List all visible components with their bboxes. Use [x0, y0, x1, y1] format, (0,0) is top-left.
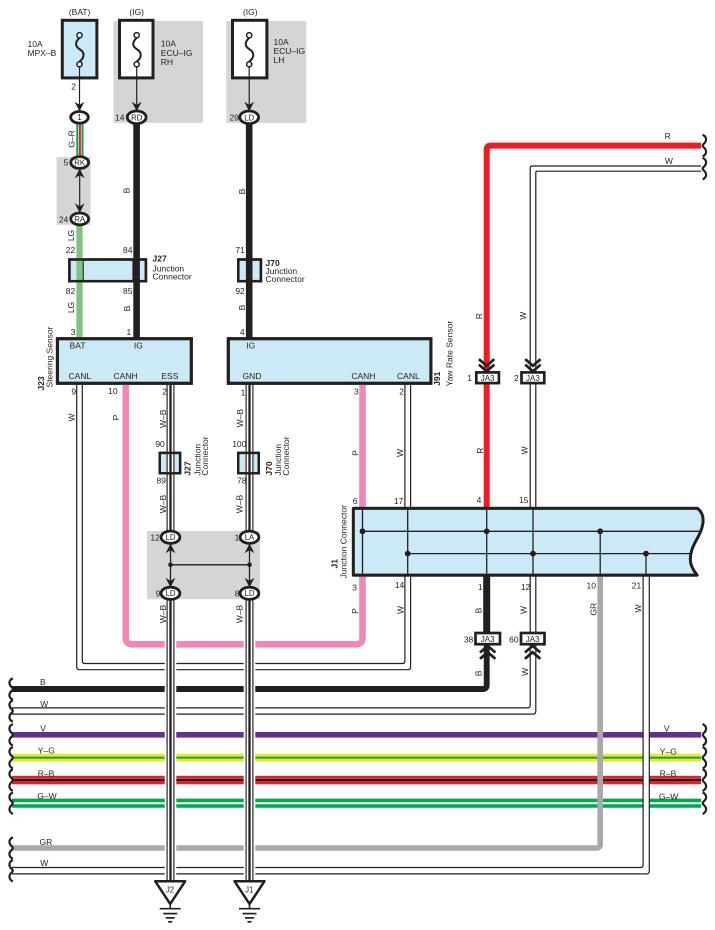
ground J2	[155, 881, 185, 922]
svg-text:W: W	[633, 604, 643, 612]
svg-text:R–B: R–B	[38, 768, 55, 778]
svg-text:2: 2	[71, 81, 76, 91]
svg-text:JA3: JA3	[481, 374, 495, 383]
svg-text:B: B	[122, 187, 132, 193]
svg-text:V: V	[40, 724, 46, 734]
svg-text:71: 71	[235, 245, 245, 255]
J1 internal CANH bus line	[363, 530, 701, 532]
svg-text:Connector: Connector	[153, 271, 192, 281]
svg-text:W: W	[395, 606, 405, 614]
svg-text:(BAT): (BAT)	[69, 7, 91, 17]
J1 internal cell line pin 21	[645, 554, 647, 574]
wire W from J23 CANL pin 9 to J1 pin 14 (double line)	[77, 383, 411, 669]
svg-text:B: B	[474, 670, 484, 676]
svg-text:LG: LG	[66, 230, 76, 241]
svg-text:LD: LD	[166, 533, 176, 542]
svg-text:W: W	[40, 858, 48, 868]
svg-text:LD: LD	[244, 113, 254, 122]
svg-text:12: 12	[521, 582, 531, 592]
fuse F3 10A ECU-IG LH box	[233, 20, 267, 78]
svg-text:1: 1	[241, 387, 246, 397]
svg-text:IG: IG	[246, 340, 255, 350]
arrow up into LD 12	[166, 544, 176, 554]
svg-text:Steering Sensor: Steering Sensor	[45, 326, 55, 387]
gray panel behind fuse ECU-IG LH	[226, 21, 306, 123]
svg-text:GND: GND	[243, 371, 262, 381]
svg-text:BAT: BAT	[70, 340, 86, 350]
svg-text:GR: GR	[589, 603, 599, 616]
wire R from JA3 to J1 pin 4	[484, 384, 490, 509]
svg-text:R: R	[474, 313, 484, 319]
svg-text:G–W: G–W	[659, 792, 678, 802]
J1 junction dot pin 10	[597, 528, 603, 534]
splice JA3 pin 2 with chevrons	[522, 359, 545, 383]
svg-text:Y–G: Y–G	[38, 745, 55, 755]
svg-text:LA: LA	[245, 533, 255, 542]
wire W from J1 pin 12 through JA3 60 to left edge (double line)	[12, 575, 536, 714]
svg-text:JA3: JA3	[526, 635, 540, 644]
break symbol right of R-B bus	[703, 769, 706, 791]
splice JA3 pin 60 with chevrons	[521, 633, 545, 659]
svg-text:10: 10	[587, 580, 597, 590]
svg-text:89: 89	[157, 476, 167, 486]
svg-text:1: 1	[126, 327, 131, 337]
svg-text:G–W: G–W	[37, 791, 56, 801]
wire B from RD through J27 to J23 IG pin 1	[133, 124, 140, 339]
yaw rate sensor J91 box	[228, 339, 431, 384]
svg-text:100: 100	[232, 439, 246, 449]
LD panel link line with junction dots	[168, 543, 252, 588]
wire P from J91 CANH pin 3 to J1 pin 6	[359, 383, 366, 508]
svg-text:W: W	[40, 699, 48, 709]
svg-text:3: 3	[354, 387, 359, 397]
wire G-R from connector 1 to RK (green with red stripe)	[77, 124, 82, 157]
svg-text:LD: LD	[245, 589, 255, 598]
svg-text:J2: J2	[166, 886, 174, 895]
svg-text:CANL: CANL	[69, 371, 92, 381]
wire: fuse F2 output lead to connector RD	[136, 66, 138, 111]
fuse F2 10A ECU-IG RH box	[120, 20, 154, 78]
wire R-B bus across page (red with black stripe)	[12, 777, 701, 783]
svg-text:J1: J1	[245, 886, 253, 895]
svg-text:78: 78	[237, 476, 247, 486]
wire V bus across page	[12, 732, 701, 738]
svg-text:R–B: R–B	[660, 769, 677, 779]
svg-text:17: 17	[394, 496, 404, 506]
svg-text:Connector: Connector	[200, 436, 210, 475]
svg-text:90: 90	[155, 439, 165, 449]
svg-text:CANL: CANL	[397, 371, 420, 381]
svg-text:W: W	[395, 449, 405, 457]
J1 junction dot pin 21	[643, 551, 649, 557]
wire R from right edge to JA3 pin 1	[487, 146, 701, 372]
svg-text:W: W	[520, 668, 530, 676]
connector oval RD	[127, 111, 146, 124]
svg-text:84: 84	[123, 245, 133, 255]
J1 junction dot pin 6	[360, 528, 366, 534]
svg-text:B: B	[237, 188, 247, 194]
svg-text:8: 8	[235, 589, 240, 599]
svg-text:W–B: W–B	[235, 604, 245, 623]
break symbol left of V bus	[9, 724, 12, 746]
break symbol left of Y-G bus	[9, 747, 12, 769]
svg-text:RA: RA	[74, 215, 86, 224]
svg-text:RK: RK	[74, 158, 86, 167]
break symbol left of W ground bus	[9, 860, 12, 882]
break symbol left of G-W bus	[9, 792, 12, 814]
svg-text:3: 3	[71, 327, 76, 337]
svg-text:4: 4	[240, 327, 245, 337]
break symbol right of Y-G bus	[703, 747, 706, 769]
svg-text:Y–G: Y–G	[660, 746, 677, 756]
svg-text:1: 1	[235, 532, 240, 542]
arrow down into LD 8	[245, 578, 255, 588]
svg-text:5: 5	[64, 158, 69, 168]
junction connector J70 box (pins 71/92)	[238, 260, 261, 282]
splice JA3 pin 38 with chevrons	[476, 633, 501, 659]
svg-text:RD: RD	[131, 113, 143, 122]
J1 junction dot pin 14	[405, 551, 411, 557]
svg-text:P: P	[351, 450, 361, 456]
svg-text:2: 2	[399, 387, 404, 397]
J1 internal cell line pin 10	[599, 531, 601, 574]
arrow up into LA 1	[245, 544, 255, 554]
connector oval LD fuse3	[240, 111, 259, 124]
svg-text:W–B: W–B	[158, 409, 168, 428]
break symbol right of R wire	[703, 135, 706, 157]
svg-text:1: 1	[77, 113, 81, 122]
junction connector J27 small box (pins 90/89)	[160, 453, 180, 473]
junction connector J70 box border restroke	[238, 260, 261, 282]
svg-text:6: 6	[353, 496, 358, 506]
svg-text:B: B	[40, 677, 46, 687]
steering sensor J23 box border restroke	[57, 339, 191, 384]
svg-text:22: 22	[66, 245, 76, 255]
svg-text:B: B	[122, 305, 132, 311]
svg-text:RH: RH	[161, 57, 173, 67]
svg-text:B: B	[473, 607, 483, 613]
arrow down into LD 9	[166, 578, 176, 588]
arrow up into RK	[75, 169, 85, 179]
svg-text:82: 82	[66, 286, 76, 296]
fuse F3 element symbol	[246, 33, 253, 67]
svg-text:85: 85	[123, 286, 133, 296]
svg-text:LG: LG	[66, 302, 76, 313]
steering sensor J23 box	[57, 339, 191, 384]
svg-text:10: 10	[108, 386, 118, 396]
svg-text:G–R: G–R	[66, 130, 76, 147]
svg-text:38: 38	[464, 634, 474, 644]
wire GR from J1 pin 10 to left edge	[12, 575, 600, 848]
svg-text:JA3: JA3	[481, 635, 495, 644]
svg-text:29: 29	[230, 112, 240, 122]
junction connector J70 small box (pins 100/78)	[238, 453, 259, 473]
wire W from J1 pin 21 to left edge (double line)	[12, 575, 649, 874]
junction connector J27 box (pins 22/84/82/85)	[69, 260, 145, 282]
arrow into connector LD fuse3	[244, 102, 254, 112]
svg-text:ESS: ESS	[161, 371, 178, 381]
J1 internal cell line pin 17/14	[407, 510, 409, 574]
svg-text:14: 14	[395, 580, 405, 590]
wire Y-G bus across page (yellow with green stripe)	[12, 755, 701, 760]
svg-text:IG: IG	[134, 340, 143, 350]
svg-text:W–B: W–B	[158, 604, 168, 623]
splice JA3 pin 1 with chevrons	[476, 359, 499, 383]
svg-text:W: W	[520, 446, 530, 454]
svg-text:W: W	[518, 312, 528, 320]
J1 internal cell line pin 4/1	[486, 510, 488, 574]
connector oval LD 9	[161, 587, 180, 599]
svg-text:60: 60	[509, 634, 519, 644]
svg-text:9: 9	[156, 589, 161, 599]
svg-text:CANH: CANH	[114, 371, 138, 381]
svg-text:P: P	[111, 414, 121, 420]
ground J1	[235, 881, 265, 922]
break symbol left of B bus	[9, 678, 12, 700]
svg-text:15: 15	[519, 495, 529, 505]
svg-text:GR: GR	[40, 837, 53, 847]
wire W-B from LD connector 9 to ground J2	[165, 599, 177, 881]
J1 internal cell line pin 15/12	[532, 510, 534, 574]
svg-text:V: V	[664, 724, 670, 734]
wire B from J1 pin 1 through JA3 38 to left edge	[12, 575, 487, 689]
svg-text:W: W	[665, 156, 673, 166]
svg-text:CANH: CANH	[351, 371, 375, 381]
svg-text:(IG): (IG)	[129, 7, 144, 17]
junction connector J1 box border restroke	[353, 508, 703, 575]
svg-text:MPX–B: MPX–B	[28, 48, 57, 58]
svg-text:1: 1	[467, 373, 472, 383]
wire B from LD through J70 to J91 IG pin 4	[246, 124, 253, 339]
svg-text:14: 14	[115, 112, 125, 122]
svg-text:P: P	[350, 608, 360, 614]
wire W from J91 CANL pin 2 to J1 pin 17 (double line)	[405, 383, 411, 508]
arrow into connector RD	[132, 102, 142, 112]
junction connector J1 box with torn right edge	[353, 508, 703, 575]
svg-text:92: 92	[235, 286, 245, 296]
svg-text:1: 1	[478, 582, 483, 592]
gray panel behind connectors LD/LA	[147, 531, 260, 599]
junction connector J27 box border restroke	[69, 260, 145, 282]
junction connector J70 small box border restroke	[238, 453, 259, 473]
break symbol right of G-W bus	[703, 792, 706, 814]
J1 internal CANL bus line	[408, 553, 691, 555]
gray panel behind fuse ECU-IG RH	[114, 21, 204, 123]
svg-text:Yaw Rate Sensor: Yaw Rate Sensor	[444, 321, 454, 387]
connector oval LD 12	[161, 531, 180, 543]
wire G-W bus across page (green with white stripe)	[12, 800, 701, 806]
svg-text:W–B: W–B	[158, 494, 168, 513]
wire W-B from J23 ESS pin 2 to LD connector 12 (white with black stripe)	[167, 385, 174, 532]
connector oval RA	[71, 213, 89, 225]
wire W from right edge to JA3 pin 2 (double line)	[530, 166, 701, 372]
svg-text:Connector: Connector	[266, 274, 305, 284]
svg-text:B: B	[237, 304, 247, 310]
J1 internal cell line pin 6/3	[362, 510, 364, 574]
svg-text:Junction Connector: Junction Connector	[338, 505, 348, 578]
wire P from J23 CANH pin 10 to J1 pin 3	[126, 383, 363, 644]
svg-text:J91: J91	[432, 371, 442, 385]
J1 junction dot pin 12	[530, 551, 536, 557]
svg-text:R: R	[475, 448, 485, 454]
wire: fuse F1 output lead to connector 1	[79, 66, 81, 111]
svg-text:2: 2	[162, 387, 167, 397]
wire W from JA3 to J1 pin 15 (double line)	[530, 384, 536, 509]
fuse F2 element symbol	[133, 33, 140, 67]
break symbol left of R-B bus	[9, 769, 12, 791]
junction connector J27 small box border restroke	[160, 453, 180, 473]
svg-text:R: R	[665, 131, 671, 141]
break symbol right of W wire	[703, 158, 706, 180]
gray panel behind connectors RK/RA	[57, 157, 91, 225]
svg-text:24: 24	[59, 214, 69, 224]
svg-text:21: 21	[632, 580, 642, 590]
wire: link RK to RA	[79, 168, 81, 214]
fuse F1 element symbol	[76, 33, 83, 67]
connector oval RK	[71, 157, 89, 169]
svg-text:W: W	[67, 413, 77, 421]
fuse F1 10A MPX-B (BAT) box	[62, 20, 97, 78]
connector oval LA 1	[240, 531, 259, 543]
svg-text:W–B: W–B	[235, 409, 245, 428]
svg-text:J27: J27	[182, 461, 192, 475]
svg-text:Connector: Connector	[281, 436, 291, 475]
svg-text:LH: LH	[274, 55, 285, 65]
svg-text:JA3: JA3	[526, 374, 540, 383]
break symbol left of GR bus	[9, 837, 12, 859]
svg-text:LD: LD	[166, 589, 176, 598]
svg-text:12: 12	[150, 532, 160, 542]
svg-text:4: 4	[477, 495, 482, 505]
break symbol left of W bus	[9, 700, 12, 722]
J1 junction dot pin 4	[484, 528, 490, 534]
arrow down into RA	[75, 203, 85, 213]
connector oval 1	[71, 112, 89, 124]
svg-text:3: 3	[352, 582, 357, 592]
svg-text:W–B: W–B	[235, 494, 245, 513]
break symbol right of V bus	[703, 724, 706, 746]
yaw rate sensor J91 box border restroke	[228, 339, 431, 384]
arrow into connector 1	[75, 102, 85, 112]
svg-text:J27: J27	[153, 253, 167, 263]
wire W-B from J91 GND pin 1 to LA connector 1	[246, 385, 253, 532]
connector oval LD 8	[240, 587, 259, 599]
wire: fuse F3 output lead to connector LD	[248, 66, 250, 111]
wire W-B from LD connector 8 to ground J1	[244, 599, 256, 881]
svg-text:W: W	[519, 606, 529, 614]
svg-text:(IG): (IG)	[243, 7, 258, 17]
wire LG from RA through J27 to J23 BAT pin 3	[76, 224, 82, 338]
svg-text:9: 9	[71, 387, 76, 397]
svg-text:2: 2	[514, 373, 519, 383]
